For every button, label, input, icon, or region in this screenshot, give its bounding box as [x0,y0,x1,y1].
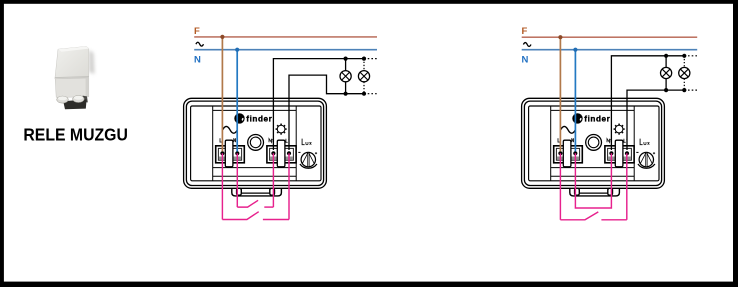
svg-text:F: F [194,26,200,37]
svg-text:N: N [522,55,529,66]
svg-text:RELE MUZGU: RELE MUZGU [23,124,128,144]
svg-text:N: N [194,55,201,66]
svg-text:F: F [522,26,528,37]
